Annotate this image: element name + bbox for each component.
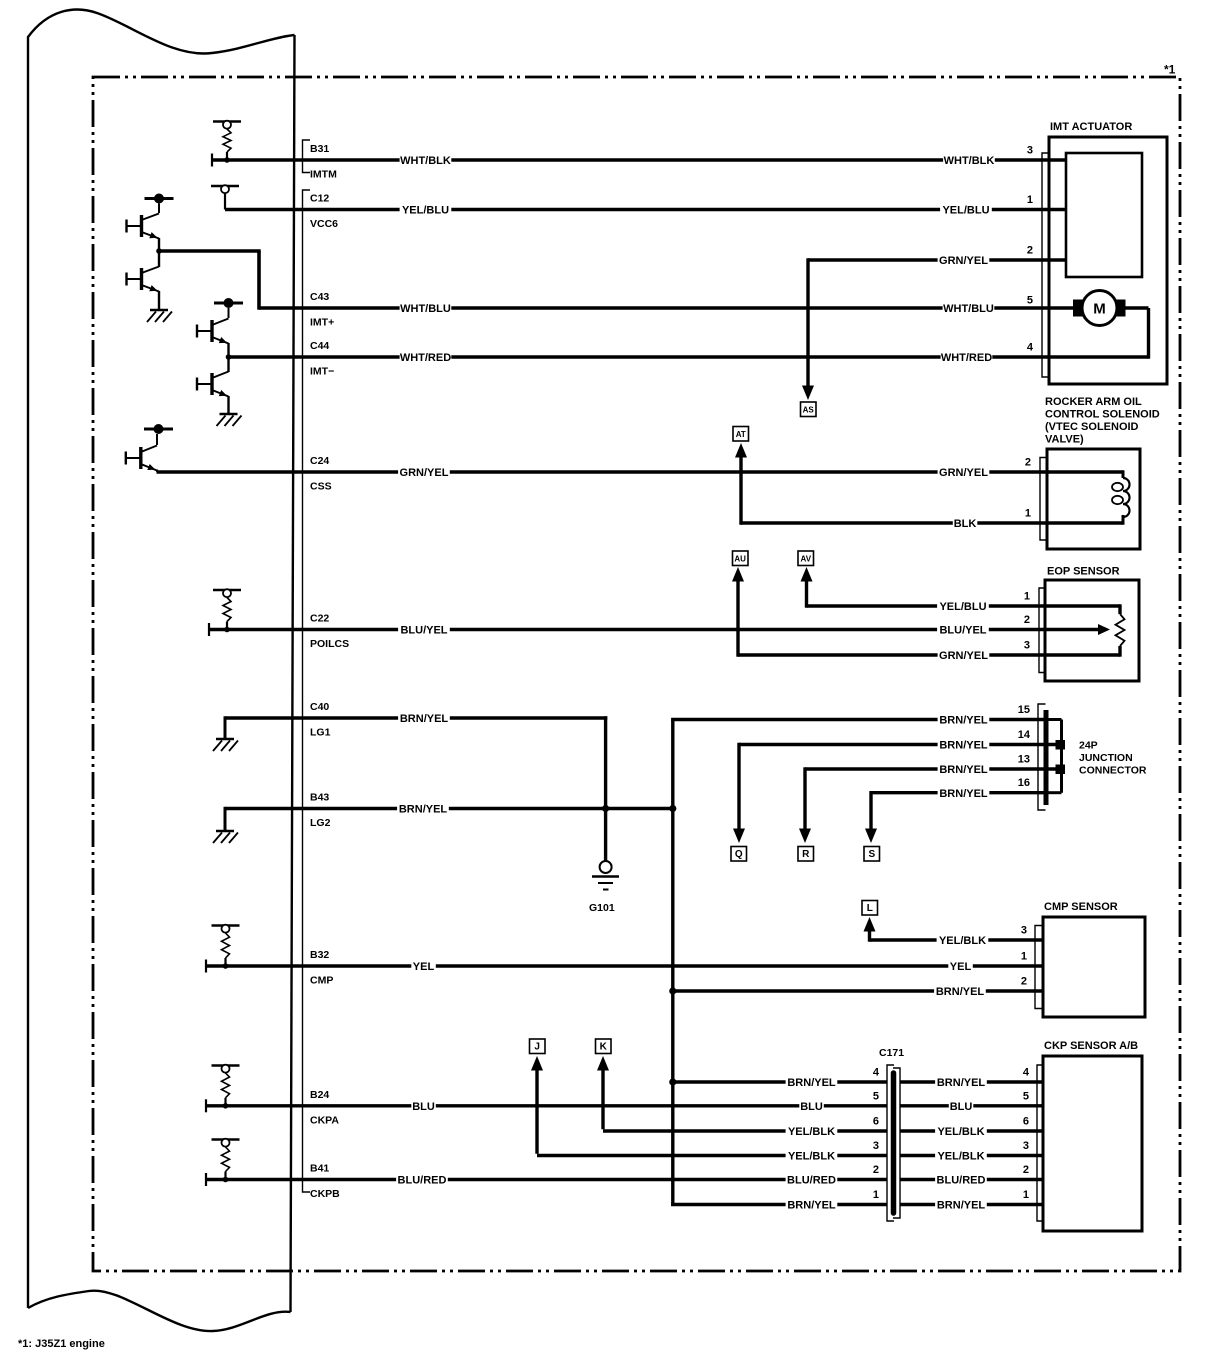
EOP potentiometer [1118, 604, 1121, 614]
svg-text:14: 14 [1018, 729, 1031, 741]
junction dot trunk CMP2 [669, 987, 676, 994]
svg-text:BLU/RED: BLU/RED [937, 1175, 986, 1187]
solenoid box [1047, 449, 1140, 549]
svg-text:AS: AS [803, 405, 815, 414]
arrowhead to S [865, 829, 877, 844]
wire YEL/BLK CMP pin3 to L [870, 938, 1044, 941]
resistor pull-up B31 [213, 120, 241, 123]
power rail node for Q5 [144, 428, 173, 431]
svg-text:B41: B41 [310, 1163, 329, 1175]
svg-text:BRN/YEL: BRN/YEL [939, 764, 988, 776]
resistor pull-up B24 [212, 1064, 240, 1067]
svg-text:ROCKER ARM OIL: ROCKER ARM OIL [1045, 396, 1142, 408]
wire BRN/YEL CMP pin2 [673, 989, 1043, 992]
svg-text:4: 4 [1023, 1067, 1030, 1079]
svg-text:WHT/BLU: WHT/BLU [943, 303, 994, 315]
svg-text:M: M [1093, 301, 1106, 318]
svg-text:1: 1 [1025, 508, 1031, 520]
svg-text:YEL: YEL [413, 961, 435, 973]
svg-text:BRN/YEL: BRN/YEL [400, 713, 449, 725]
IMT connector bracket [1042, 153, 1050, 377]
svg-text:3: 3 [1023, 1140, 1029, 1152]
svg-text:*1: *1 [1164, 63, 1176, 77]
svg-text:WHT/BLK: WHT/BLK [400, 155, 451, 167]
wire labels at C171 left [786, 1076, 838, 1089]
ground trunk vertical [671, 720, 674, 1207]
EOP bracket [1039, 588, 1047, 673]
svg-text:2: 2 [1023, 1164, 1029, 1176]
svg-text:AU: AU [734, 555, 746, 564]
svg-text:Q: Q [735, 849, 743, 860]
arrowhead to AU [732, 567, 744, 582]
svg-text:2: 2 [873, 1164, 879, 1176]
ground for Q4 [227, 396, 229, 414]
svg-text:BLU/RED: BLU/RED [787, 1175, 836, 1187]
IMT ACTUATOR inner box [1066, 153, 1142, 277]
svg-text:IMT+: IMT+ [310, 317, 334, 329]
CKP bracket [1037, 1065, 1045, 1221]
wire BRN/YEL B43 LG2 [225, 807, 675, 810]
junction dot LG2/G101 [602, 805, 609, 812]
resistor pull-up B32 [212, 924, 240, 927]
ground lead C40 LG1 [224, 716, 227, 739]
wire YEL/BLU C12 to IMT pin1 [225, 208, 1066, 211]
svg-text:1: 1 [1024, 591, 1030, 603]
wire WHT/RED C44 to IMT pin4 [229, 355, 1149, 358]
wire labels left column [400, 154, 452, 167]
CKP box [1043, 1056, 1142, 1231]
svg-text:BLU/YEL: BLU/YEL [939, 625, 986, 637]
transistor Q2 lower IMT+ driver [158, 238, 160, 267]
svg-text:POILCS: POILCS [310, 638, 349, 650]
wire BLK solenoid pin1 to AT [741, 521, 1123, 524]
power rail node for Q3/Q4 pair [214, 302, 243, 305]
svg-text:GRN/YEL: GRN/YEL [939, 255, 988, 267]
svg-text:GRN/YEL: GRN/YEL [939, 650, 988, 662]
svg-text:S: S [868, 849, 875, 860]
dashed diagram border [93, 77, 1180, 1271]
junction dot trunk LG2 [669, 805, 676, 812]
svg-text:1: 1 [1023, 1189, 1029, 1201]
svg-text:2: 2 [1021, 976, 1027, 988]
solenoid bracket [1040, 458, 1048, 541]
svg-text:IMT ACTUATOR: IMT ACTUATOR [1050, 121, 1132, 133]
svg-text:4: 4 [1027, 342, 1034, 354]
wire WHT/BLK B31 to IMT pin3 [212, 158, 1066, 161]
off-page connector L [862, 901, 878, 916]
svg-text:B31: B31 [310, 143, 329, 155]
IMT ACTUATOR outer box [1049, 137, 1167, 384]
svg-text:CONTROL SOLENOID: CONTROL SOLENOID [1045, 409, 1160, 421]
C171 bracket left [887, 1065, 894, 1221]
resistor pull-up B41 [212, 1138, 240, 1141]
wire GRN/YEL IMT pin2 from AS [808, 258, 1066, 261]
svg-text:VALVE): VALVE) [1045, 434, 1084, 446]
C171 body bar [891, 1073, 897, 1213]
svg-text:6: 6 [873, 1116, 879, 1128]
svg-text:YEL/BLK: YEL/BLK [788, 1126, 835, 1138]
motor M brushes [1073, 300, 1086, 317]
svg-text:B43: B43 [310, 792, 329, 804]
off-page connector AU [733, 551, 749, 566]
svg-text:YEL/BLU: YEL/BLU [939, 601, 986, 613]
ground for Q2 [158, 291, 160, 310]
svg-text:BRN/YEL: BRN/YEL [937, 1200, 986, 1212]
CMP bracket [1035, 926, 1043, 1009]
svg-text:1: 1 [873, 1189, 879, 1201]
output node IMT- [226, 354, 232, 360]
svg-text:24P: 24P [1079, 740, 1098, 752]
off-page connector J [530, 1039, 546, 1054]
svg-text:1: 1 [1021, 951, 1027, 963]
svg-text:B32: B32 [310, 949, 329, 961]
wire BRN/YEL C171 pin1 [671, 1203, 887, 1206]
wire BRN/YEL junction pin14 to Q [739, 743, 1057, 746]
svg-text:C40: C40 [310, 701, 329, 713]
junction connector bus [1060, 720, 1063, 793]
wire YEL/BLK C171 pin3 from J [537, 1154, 887, 1157]
svg-text:5: 5 [1023, 1090, 1029, 1102]
svg-text:6: 6 [1023, 1116, 1029, 1128]
svg-text:BRN/YEL: BRN/YEL [939, 788, 988, 800]
svg-text:5: 5 [873, 1090, 879, 1102]
wiper arrowhead EOP [1098, 624, 1110, 635]
svg-text:IMT−: IMT− [310, 366, 334, 378]
svg-text:JUNCTION: JUNCTION [1079, 752, 1133, 764]
svg-text:5: 5 [1027, 295, 1033, 307]
arrowhead to K [597, 1056, 609, 1071]
svg-text:1: 1 [1027, 194, 1033, 206]
wire labels at C171 right [935, 1076, 987, 1089]
ground lead B43 LG2 [224, 807, 227, 831]
wire YEL/BLU EOP pin1 from AV [807, 604, 1121, 607]
svg-text:B24: B24 [310, 1089, 329, 1101]
svg-text:YEL: YEL [950, 961, 972, 973]
svg-text:WHT/BLU: WHT/BLU [400, 303, 451, 315]
svg-text:C22: C22 [310, 613, 329, 625]
svg-text:YEL/BLU: YEL/BLU [402, 205, 449, 217]
svg-text:VCC6: VCC6 [310, 218, 338, 230]
transistor Q5 CSS driver [156, 434, 158, 445]
svg-text:R: R [802, 849, 810, 860]
svg-text:BLK: BLK [954, 518, 977, 530]
wire BRN/YEL junction pin13 to R [805, 767, 1057, 770]
svg-text:K: K [600, 1042, 608, 1053]
svg-text:BRN/YEL: BRN/YEL [936, 986, 985, 998]
svg-text:YEL/BLK: YEL/BLK [788, 1151, 835, 1163]
wire vertical to G101 [604, 716, 607, 861]
svg-text:BLU: BLU [950, 1101, 973, 1113]
svg-text:C43: C43 [310, 291, 329, 303]
wire BLU B24 CKPA to C171 pin5 [206, 1104, 887, 1107]
svg-text:IMTM: IMTM [310, 169, 337, 181]
svg-text:3: 3 [1024, 640, 1030, 652]
svg-text:CMP SENSOR: CMP SENSOR [1044, 901, 1118, 913]
svg-text:3: 3 [1021, 925, 1027, 937]
arrowhead to J [531, 1056, 543, 1071]
svg-text:BRN/YEL: BRN/YEL [399, 804, 448, 816]
arrowhead to AV [801, 567, 813, 582]
svg-text:WHT/RED: WHT/RED [400, 352, 451, 364]
transistor Q1 upper IMT+ driver [158, 204, 160, 214]
svg-text:CKPB: CKPB [310, 1188, 340, 1200]
motor circle M [1125, 306, 1149, 309]
svg-text:BLU: BLU [800, 1101, 823, 1113]
wire BRN/YEL junction pin15 [671, 718, 1046, 721]
svg-text:C171: C171 [879, 1047, 904, 1059]
wires C171 to CKP sensor [900, 1080, 1043, 1083]
svg-text:15: 15 [1018, 704, 1030, 716]
power feed VCC6 C12 [211, 185, 239, 188]
wire labels right column [943, 154, 995, 167]
resistor pull-up C22 [213, 589, 241, 592]
svg-text:4: 4 [873, 1067, 880, 1079]
ECM connector bracket C12..B41 [303, 190, 311, 1192]
svg-text:CONNECTOR: CONNECTOR [1079, 765, 1147, 777]
svg-text:CMP: CMP [310, 975, 333, 987]
svg-text:GRN/YEL: GRN/YEL [939, 467, 988, 479]
svg-text:WHT/RED: WHT/RED [941, 352, 992, 364]
junction connector bracket [1038, 704, 1046, 810]
CMP box [1043, 917, 1145, 1017]
wire YEL/BLK C171 pin6 from K [603, 1129, 887, 1132]
C171 bracket right [893, 1068, 900, 1218]
svg-text:YEL/BLU: YEL/BLU [942, 205, 989, 217]
output node IMT+ [156, 248, 162, 254]
junction dot trunk row4 [669, 1078, 676, 1085]
arrowhead to Q [733, 829, 745, 844]
svg-text:C12: C12 [310, 193, 329, 205]
svg-text:AV: AV [801, 555, 812, 564]
wire BLU/RED B41 CKPB to C171 pin2 [206, 1178, 887, 1181]
wire BLU/YEL C22 to EOP pin2 wiper [209, 628, 1098, 631]
off-page connector R [798, 847, 814, 862]
off-page connector Q [731, 847, 747, 862]
power rail node for Q1/Q2 pair [145, 197, 174, 200]
svg-text:3: 3 [1027, 145, 1033, 157]
svg-text:J: J [534, 1042, 540, 1053]
off-page connector AT [733, 427, 749, 442]
off-page connector AV [798, 551, 814, 566]
arrowhead to L [864, 917, 876, 932]
svg-text:BRN/YEL: BRN/YEL [939, 740, 988, 752]
svg-text:LG2: LG2 [310, 817, 331, 829]
svg-text:BLU: BLU [412, 1101, 435, 1113]
solenoid coil [1122, 470, 1125, 478]
ECM connector bracket B31 [303, 140, 311, 173]
svg-text:WHT/BLK: WHT/BLK [944, 155, 995, 167]
svg-text:LG1: LG1 [310, 727, 331, 739]
svg-text:*1: J35Z1 engine: *1: J35Z1 engine [18, 1338, 105, 1350]
svg-text:C24: C24 [310, 455, 329, 467]
svg-text:BLU/YEL: BLU/YEL [400, 625, 447, 637]
wire BRN/YEL C40 LG1 [225, 716, 607, 719]
svg-text:2: 2 [1025, 457, 1031, 469]
off-page connector S [864, 847, 880, 862]
EOP box [1045, 580, 1139, 681]
svg-text:(VTEC SOLENOID: (VTEC SOLENOID [1045, 421, 1139, 433]
svg-text:BRN/YEL: BRN/YEL [787, 1077, 836, 1089]
emitter joins CSS wire [156, 470, 158, 473]
ground G101 [600, 861, 612, 873]
svg-text:BRN/YEL: BRN/YEL [939, 715, 988, 727]
svg-text:GRN/YEL: GRN/YEL [400, 467, 449, 479]
wire BRN/YEL C171 pin4 [673, 1080, 887, 1083]
arrowhead to AS [802, 386, 814, 401]
svg-text:YEL/BLK: YEL/BLK [939, 935, 986, 947]
wire GRN/YEL EOP pin3 to AU [738, 653, 1120, 656]
svg-text:CSS: CSS [310, 481, 332, 493]
svg-text:YEL/BLK: YEL/BLK [937, 1126, 984, 1138]
svg-text:13: 13 [1018, 754, 1030, 766]
svg-text:2: 2 [1027, 245, 1033, 257]
svg-text:BRN/YEL: BRN/YEL [787, 1200, 836, 1212]
arrowhead to AT [735, 443, 747, 458]
wire YEL B32 CMP to CMP pin1 [206, 964, 1043, 967]
svg-text:G101: G101 [589, 902, 615, 914]
svg-text:16: 16 [1018, 777, 1030, 789]
svg-text:2: 2 [1024, 614, 1030, 626]
off-page connector AS [801, 402, 817, 417]
svg-text:BRN/YEL: BRN/YEL [937, 1077, 986, 1089]
arrowhead to R [799, 829, 811, 844]
svg-text:3: 3 [873, 1140, 879, 1152]
svg-text:CKPA: CKPA [310, 1114, 339, 1126]
svg-text:YEL/BLK: YEL/BLK [937, 1151, 984, 1163]
svg-text:BLU/RED: BLU/RED [398, 1175, 447, 1187]
svg-text:C44: C44 [310, 340, 329, 352]
svg-text:L: L [867, 903, 873, 914]
svg-text:EOP SENSOR: EOP SENSOR [1047, 566, 1120, 578]
wire GRN/YEL C24 CSS to solenoid pin2 [157, 470, 1124, 473]
svg-text:AT: AT [736, 430, 746, 439]
wire WHT/BLU C43 to IMT pin5 [259, 306, 1074, 309]
transistor Q3 upper IMT- driver [228, 308, 230, 318]
junction connector body bar [1044, 710, 1049, 805]
off-page connector K [596, 1039, 612, 1054]
svg-text:CKP SENSOR A/B: CKP SENSOR A/B [1044, 1040, 1138, 1052]
transistor Q4 lower IMT- driver [227, 343, 229, 372]
wire BRN/YEL junction pin16 to S [871, 791, 1046, 794]
ECM band torn-paper outline [28, 10, 295, 1332]
